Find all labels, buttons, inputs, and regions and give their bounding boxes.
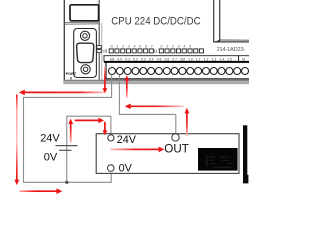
svg-text:2: 2 <box>121 45 124 49</box>
wire 1M horizontal to left <box>24 96 113 98</box>
svg-text:0V: 0V <box>119 163 133 175</box>
sensor box <box>96 134 239 174</box>
red arrow: to OUT label <box>110 147 164 153</box>
red arrow: left side long down <box>14 95 19 186</box>
terminal label strip box <box>104 56 239 62</box>
wire battery plus riser <box>66 116 68 145</box>
svg-text:0.5: 0.5 <box>157 57 162 61</box>
battery bottom plate <box>59 149 72 151</box>
svg-text:0.1: 0.1 <box>125 57 130 61</box>
red arrow: up into input 0.1 <box>124 75 129 98</box>
svg-text:0.3: 0.3 <box>141 57 146 61</box>
wire supply top horizontal <box>66 115 111 117</box>
door hinge corner <box>213 39 220 42</box>
sensor 0V terminal <box>108 165 115 172</box>
svg-text:0.2: 0.2 <box>133 57 138 61</box>
sensor display faint markings <box>206 155 233 168</box>
D-sub connector outline <box>77 43 94 62</box>
photo fragment black bar lower step <box>243 175 248 184</box>
svg-text:1: 1 <box>116 45 118 49</box>
svg-text:1.3: 1.3 <box>212 57 217 61</box>
memory cartridge slot <box>70 5 99 21</box>
red arrow: supply top to the right <box>75 118 104 124</box>
wire from terminal 0.0 down <box>118 75 120 115</box>
terminal label strip right section <box>239 56 250 62</box>
red arrow: down into sensor 24V <box>103 122 108 136</box>
red arrow: up from OUT <box>185 108 190 136</box>
svg-text:0.7: 0.7 <box>172 57 177 61</box>
svg-text:2M: 2M <box>180 57 185 61</box>
svg-text:214-1AD23-: 214-1AD23- <box>217 47 246 53</box>
wire down into sensor 24V <box>110 116 112 135</box>
svg-text:4: 4 <box>133 45 135 49</box>
red arrow: signal horizontal to the left <box>125 104 184 110</box>
svg-text:5: 5 <box>189 45 192 49</box>
wire signal horizontal to right <box>119 113 176 115</box>
LED squares group I0 <box>109 49 153 53</box>
sensor 24V terminal <box>108 135 114 141</box>
svg-text:0.6: 0.6 <box>165 57 170 61</box>
svg-text:I0: I0 <box>103 49 107 54</box>
svg-text:0V: 0V <box>44 151 58 163</box>
red arrow: horizontal to the left <box>19 90 105 96</box>
PLC body right edge of side section <box>98 0 100 80</box>
cartridge slot lower lines <box>65 22 100 24</box>
LED digit labels group I1 <box>160 45 192 49</box>
LED squares group I1 <box>159 49 203 53</box>
svg-text:1.1: 1.1 <box>196 57 201 61</box>
svg-text:M: M <box>242 57 245 61</box>
wire bottom rail <box>23 181 112 183</box>
wire battery minus down <box>66 146 68 183</box>
PLC bottom shaded band <box>64 80 249 85</box>
wire 0V sensor drop <box>110 171 112 182</box>
port top screw <box>80 31 89 40</box>
svg-text:1.5: 1.5 <box>227 57 232 61</box>
red arrow: bottom to the right <box>20 188 63 194</box>
svg-text:3: 3 <box>178 45 181 49</box>
wire down into sensor OUT <box>175 114 177 133</box>
svg-text:0: 0 <box>160 45 163 49</box>
svg-text:24V: 24V <box>40 132 60 144</box>
terminal name labels <box>110 57 245 61</box>
sensor display window <box>198 148 238 171</box>
svg-text:1M: 1M <box>110 57 115 61</box>
photo fragment black bar right edge <box>243 125 247 179</box>
svg-text:0: 0 <box>111 45 114 49</box>
terminal label strip bottom thick border <box>104 61 249 63</box>
terminal block box <box>106 63 249 79</box>
door bottom edge <box>213 41 249 43</box>
sensor OUT terminal <box>172 134 179 141</box>
svg-text:3: 3 <box>128 45 131 49</box>
svg-text:CPU 224 DC/DC/DC: CPU 224 DC/DC/DC <box>111 16 201 28</box>
wire left riser down <box>23 97 25 182</box>
door frame line inner <box>219 0 221 40</box>
port bottom screw <box>81 65 90 74</box>
PLC CPU module body left edge <box>63 0 65 84</box>
svg-text:4: 4 <box>183 45 185 49</box>
svg-text:6: 6 <box>145 45 148 49</box>
svg-text:1.0: 1.0 <box>188 57 193 61</box>
svg-text:OUT: OUT <box>164 143 188 156</box>
door bottom inner edge <box>220 39 249 41</box>
red arrow: PLC 1M terminal down <box>103 67 108 94</box>
DB9 port plate <box>74 29 97 78</box>
svg-text:I1: I1 <box>154 49 158 54</box>
PORT 0 label <box>66 72 77 80</box>
svg-text:2: 2 <box>171 45 174 49</box>
battery 24V supply top plate <box>56 145 78 147</box>
svg-text:24V: 24V <box>117 134 137 146</box>
svg-text:1: 1 <box>166 45 168 49</box>
PLC front face groove line <box>101 23 103 80</box>
svg-text:5: 5 <box>139 45 142 49</box>
svg-text:1.4: 1.4 <box>220 57 225 61</box>
LED digit labels group I0 <box>111 45 154 49</box>
terminal screw circles row <box>109 68 249 75</box>
red arrow: battery plus up <box>68 119 73 143</box>
wire from terminal 1M down <box>111 75 113 98</box>
junction node <box>65 181 68 184</box>
svg-text:0.4: 0.4 <box>149 57 154 61</box>
terminal clips <box>97 46 102 53</box>
svg-text:1.2: 1.2 <box>204 57 209 61</box>
svg-text:0.0: 0.0 <box>118 57 123 61</box>
door frame line outer <box>213 0 215 42</box>
